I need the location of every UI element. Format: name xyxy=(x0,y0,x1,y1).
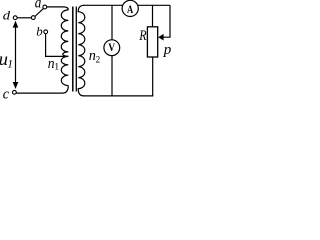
svg-text:p: p xyxy=(163,42,172,58)
voltmeter branch wire xyxy=(111,5,113,95)
svg-text:V: V xyxy=(108,42,115,54)
voltmeter V xyxy=(104,40,120,56)
resistor R body xyxy=(147,27,157,57)
wiper arrowhead p xyxy=(158,34,163,41)
svg-text:2: 2 xyxy=(96,55,101,65)
tap b wire xyxy=(46,34,69,57)
svg-text:c: c xyxy=(3,87,10,103)
right-side wire down to wiper xyxy=(163,5,170,37)
secondary coil n2 winding xyxy=(78,5,85,96)
switch blade xyxy=(35,8,44,16)
u1 arrowhead down (at c) xyxy=(13,82,19,89)
svg-text:1: 1 xyxy=(54,62,59,73)
resistor bottom lead xyxy=(152,57,154,96)
resistor top lead xyxy=(152,5,154,26)
terminal a xyxy=(43,5,47,9)
svg-text:d: d xyxy=(3,8,11,23)
secondary top wire xyxy=(83,4,170,6)
svg-text:A: A xyxy=(127,3,134,16)
wire a to primary coil top xyxy=(47,7,69,10)
u1 arrowhead up (at d) xyxy=(13,21,19,28)
ammeter A xyxy=(122,0,138,16)
transformer core line 1 xyxy=(72,7,74,92)
svg-text:a: a xyxy=(35,0,42,11)
primary bottom wire to c xyxy=(17,86,69,94)
wire d to switch pivot xyxy=(17,17,32,19)
terminal d xyxy=(13,16,17,20)
svg-text:b: b xyxy=(36,24,43,39)
terminal c xyxy=(13,90,17,94)
svg-text:1: 1 xyxy=(7,59,13,71)
svg-text:R: R xyxy=(138,28,146,44)
primary coil n1 winding xyxy=(61,10,68,86)
terminal b xyxy=(44,30,48,34)
secondary bottom wire xyxy=(83,95,153,97)
u1 voltage arrow shaft xyxy=(15,26,17,84)
transformer core line 2 xyxy=(75,7,77,92)
switch pivot terminal xyxy=(31,16,35,20)
